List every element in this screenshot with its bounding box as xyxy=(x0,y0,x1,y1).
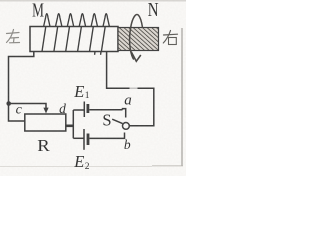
faint page border bottom xyxy=(0,166,152,168)
switch pivot circle xyxy=(123,123,130,130)
wire: coil right lead down xyxy=(107,52,154,126)
faint page border top xyxy=(0,0,186,2)
wire: node down to rheostat left xyxy=(9,104,25,122)
wire: coil left lead down xyxy=(9,52,34,104)
node c junction dot xyxy=(6,101,11,106)
wire erosion gap on top wire xyxy=(130,87,138,90)
label 左 (drawn strokes) xyxy=(7,30,20,43)
faint page border right xyxy=(181,28,183,166)
wiper arrowhead xyxy=(43,108,48,114)
label 右 (drawn strokes) xyxy=(163,31,177,45)
wire: rheostat right stub xyxy=(66,125,74,128)
wire: vertical connector between batteries xyxy=(72,110,74,138)
winding wires through body xyxy=(42,27,46,52)
iron core (hatched) xyxy=(118,28,159,51)
contact b stub xyxy=(124,133,126,140)
coil winding turns xyxy=(42,14,109,55)
resistor R (rheostat box) xyxy=(25,114,66,131)
battery E1 xyxy=(73,109,84,111)
coil body L (solenoid rectangle) xyxy=(30,27,118,52)
contact a stub xyxy=(123,109,126,118)
paper noise xyxy=(0,0,186,176)
switch S blade xyxy=(112,119,122,123)
battery E2 xyxy=(73,137,84,139)
rotation arrow around core xyxy=(130,14,143,61)
wire: wiper arm from node to rheostat xyxy=(9,104,46,109)
winding stubs below body xyxy=(94,52,96,55)
